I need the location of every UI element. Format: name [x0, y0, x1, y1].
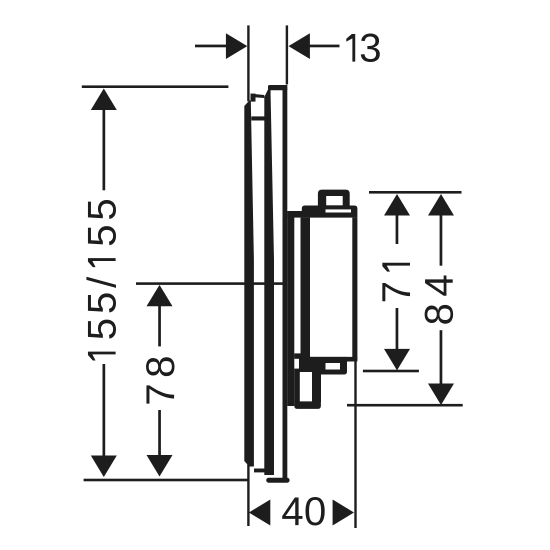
flange slot (white) [326, 363, 341, 370]
wall plate top lip [251, 94, 256, 102]
arrow 84 top (points up) [428, 194, 454, 216]
text 71 (rotated) [382, 263, 410, 302]
front plate top cap [268, 85, 287, 90]
extension line 40 left [247, 464, 249, 526]
text 40 [282, 497, 325, 525]
cartridge flange band [299, 357, 347, 372]
cartridge bottom cap [301, 357, 358, 362]
extension line 71 bottom [363, 370, 419, 373]
text 84 (rotated) [425, 276, 453, 324]
step bottom cap [294, 401, 321, 409]
extension line top wall-plane (13 left) [247, 25, 249, 101]
holder crossbar [294, 353, 300, 358]
arrow 40 left (points left) [249, 500, 270, 526]
flange tab (rounded bottom-right) [321, 362, 347, 375]
knob outline [318, 190, 350, 207]
text 13 [346, 34, 380, 62]
extension line 71/84 top [369, 191, 462, 194]
arrow 78 top (points up) [147, 285, 173, 306]
leader line right of 13 [309, 45, 340, 48]
text 78 (rotated) [146, 357, 174, 403]
dimension line 84 lower segment [440, 330, 443, 384]
extension line 155 top [82, 85, 229, 88]
holder top cap [287, 211, 302, 218]
cartridge right wall [352, 218, 357, 362]
wall plate window crossbar [251, 116, 265, 120]
dimension line 78 lower segment [158, 410, 161, 456]
text 155/155 (rotated) [86, 200, 116, 361]
step right wall [312, 372, 321, 402]
cartridge top cap [302, 206, 358, 218]
dimension line 155 lower segment [103, 364, 106, 457]
extension line top front-face (13 right) [286, 25, 288, 84]
dimension line 71 lower segment [396, 308, 399, 350]
front plate bottom cap [266, 478, 289, 483]
step left wall [294, 369, 300, 402]
arrow 71 bottom (points down) [384, 349, 410, 371]
cartridge cap sliver (white) [326, 209, 352, 212]
dimension line 84 upper segment [440, 214, 443, 266]
extension line 78 top [136, 282, 285, 285]
dimension line 71 upper segment [396, 214, 399, 244]
extension line 84 bottom [347, 404, 463, 407]
knob inner window (white) [326, 196, 343, 205]
cartridge left wall [301, 218, 311, 358]
arrow 13 right (points left) [289, 33, 310, 59]
wall plate window bottom cap [254, 469, 267, 473]
front plate right wall [283, 85, 288, 480]
middle bar (escutcheon sleeve) [264, 90, 274, 476]
wall plate back bar (beveled corners) [244, 101, 254, 467]
dimension line 78 upper segment [158, 305, 161, 346]
arrow 84 bottom (points down) [428, 384, 454, 406]
wall plate window top cap [251, 94, 265, 98]
arrow 155 bottom (points down) [91, 456, 117, 478]
holder wall [287, 211, 294, 406]
arrow 155 top (points up) [91, 89, 117, 111]
arrow 13 left (points right) [226, 33, 247, 59]
leader line left of 13 [195, 45, 226, 48]
arrow 78 bottom (points down) [147, 455, 173, 477]
extension line 155/78 bottom [84, 479, 248, 482]
arrow 71 top (points up) [384, 194, 410, 216]
arrow 40 right (points right) [333, 500, 354, 526]
extension line 40 right [354, 362, 356, 529]
dimension line 155 upper segment [103, 108, 106, 190]
